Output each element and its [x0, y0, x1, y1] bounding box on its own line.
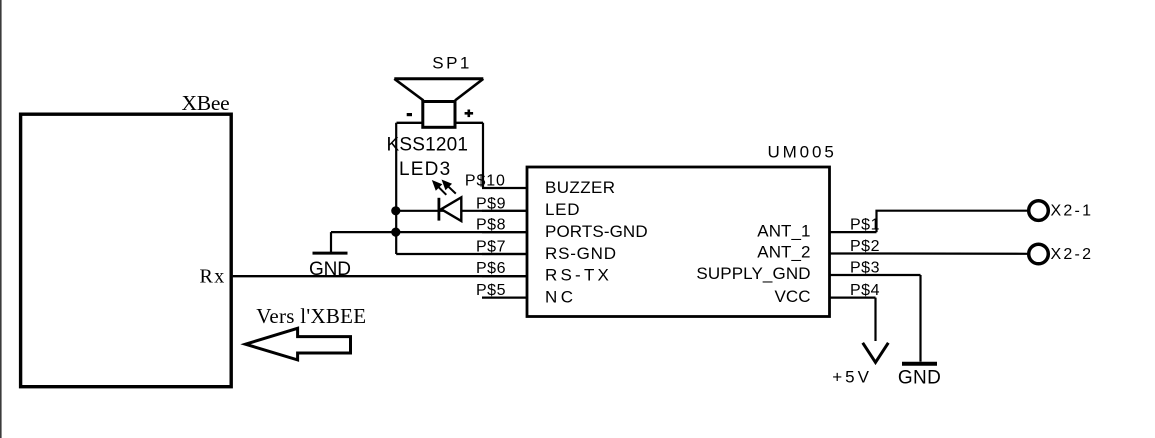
- svg-text:X2-1: X2-1: [1051, 202, 1092, 219]
- svg-text:SP1: SP1: [432, 54, 469, 73]
- svg-text:GND: GND: [898, 368, 941, 389]
- connector X2-2: [1029, 244, 1091, 264]
- wire SUPPLY_GND down to ground: [919, 275, 921, 362]
- svg-text:P$4: P$4: [850, 282, 880, 299]
- svg-text:PORTS-GND: PORTS-GND: [545, 222, 648, 241]
- svg-text:VCC: VCC: [775, 287, 811, 306]
- svg-text:Vers l'XBEE: Vers l'XBEE: [256, 304, 366, 328]
- svg-text:RS-GND: RS-GND: [545, 244, 616, 263]
- wire Rx to RS-TX (net P$6): [233, 275, 527, 277]
- svg-text:P$1: P$1: [850, 217, 880, 234]
- svg-text:P$8: P$8: [476, 217, 506, 234]
- svg-text:P$2: P$2: [850, 238, 880, 255]
- pin P$6 RS-TX: [476, 260, 609, 285]
- wire net to RS-GND (P$7): [396, 253, 527, 255]
- wire GND net to PORTS-GND (P$8): [331, 231, 527, 233]
- svg-text:P$5: P$5: [476, 282, 506, 299]
- pin P$8 PORTS-GND: [476, 217, 648, 241]
- svg-text:P$3: P$3: [850, 259, 880, 276]
- IC UM005 box: [527, 167, 830, 317]
- pin P$4 VCC: [775, 282, 880, 306]
- svg-text:LED: LED: [545, 200, 580, 219]
- svg-text:ANT_2: ANT_2: [757, 243, 810, 262]
- pin P$10 BUZZER: [465, 173, 615, 197]
- svg-text:Rx: Rx: [200, 266, 225, 288]
- pin P$5 NC: [476, 282, 573, 307]
- svg-text:RS-TX: RS-TX: [545, 266, 609, 285]
- XBee module box: [21, 114, 232, 387]
- svg-text:XBee: XBee: [182, 91, 230, 115]
- svg-text:LED3: LED3: [399, 159, 450, 180]
- svg-text:+5V: +5V: [832, 368, 869, 387]
- speaker SP1: [394, 79, 483, 128]
- svg-text:BUZZER: BUZZER: [545, 178, 615, 197]
- svg-text:P$10: P$10: [465, 173, 505, 190]
- arrow to XBee: [246, 328, 351, 360]
- svg-text:GND: GND: [309, 259, 351, 280]
- wire P$2 to X2-2: [877, 252, 1028, 255]
- speaker minus terminal: [407, 113, 412, 116]
- pin P$7 RS-GND: [476, 238, 616, 263]
- svg-text:P$9: P$9: [476, 195, 506, 212]
- supply +5V: [832, 343, 888, 387]
- pin P$1 ANT_1: [757, 217, 879, 241]
- svg-text:UM005: UM005: [768, 143, 834, 162]
- junction dot A: [391, 206, 400, 215]
- svg-text:SUPPLY_GND: SUPPLY_GND: [696, 264, 810, 283]
- speaker plus terminal: [465, 110, 474, 118]
- wire speaker minus down to LED anode net: [395, 123, 397, 254]
- ground GND (left): [309, 232, 351, 280]
- wire P$1 to X2-1: [877, 211, 1028, 232]
- svg-text:P$7: P$7: [476, 238, 506, 255]
- pin P$2 ANT_2: [757, 238, 879, 262]
- svg-text:KSS1201: KSS1201: [387, 135, 469, 156]
- svg-text:X2-2: X2-2: [1051, 246, 1092, 263]
- ground GND (supply, right): [898, 364, 941, 389]
- junction dot B: [391, 228, 400, 237]
- LED LED3: [433, 181, 461, 221]
- wire speaker plus down to BUZZER (P$10): [482, 123, 484, 188]
- wire VCC down to +5V: [874, 298, 876, 341]
- wire LED anode net to P$9: [396, 210, 527, 212]
- connector X2-1: [1029, 201, 1091, 221]
- pin P$3 SUPPLY_GND: [696, 259, 920, 283]
- svg-text:ANT_1: ANT_1: [757, 221, 810, 240]
- pin P$9 LED: [476, 195, 580, 219]
- svg-text:P$6: P$6: [476, 260, 506, 277]
